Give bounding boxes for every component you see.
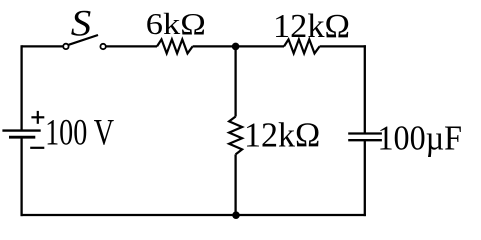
battery minus sign bbox=[30, 147, 44, 149]
svg-text:12kΩ: 12kΩ bbox=[244, 115, 320, 154]
wire left vertical (battery to top-left corner) bbox=[20, 45, 22, 130]
wire switch to 6k resistor bbox=[106, 45, 157, 47]
battery plus sign bbox=[31, 111, 44, 124]
resistor 12k middle vertical zigzag bbox=[229, 117, 242, 155]
svg-text:12kΩ: 12kΩ bbox=[273, 8, 350, 45]
switch S blade bbox=[69, 35, 98, 45]
capacitor C1 bottom plate bbox=[348, 139, 382, 141]
svg-text:6kΩ: 6kΩ bbox=[146, 6, 206, 41]
wire left vertical lower (battery to bottom-left corner) bbox=[20, 137, 22, 216]
wire right vertical upper (corner to capacitor) bbox=[364, 45, 366, 133]
svg-text:100 V: 100 V bbox=[45, 112, 114, 153]
wire middle vertical lower (12k resistor to bottom node) bbox=[234, 154, 236, 215]
junction dot top node bbox=[232, 43, 240, 51]
capacitor C1 top plate bbox=[348, 132, 382, 134]
resistor 6k zigzag bbox=[157, 39, 193, 53]
switch S right terminal circle bbox=[100, 44, 105, 49]
svg-text:S: S bbox=[71, 4, 92, 45]
wire bottom horizontal bbox=[21, 214, 366, 216]
switch S left terminal circle bbox=[63, 44, 68, 49]
junction dot bottom node bbox=[232, 211, 240, 219]
battery V1 bottom plate (-) bbox=[9, 136, 35, 139]
wire 6k resistor to middle node bbox=[193, 45, 284, 47]
wire top-left segment (corner to switch) bbox=[22, 45, 64, 47]
wire 12k top resistor to top-right corner bbox=[320, 45, 366, 47]
svg-text:100µF: 100µF bbox=[378, 118, 463, 157]
wire middle vertical upper (top node to 12k resistor) bbox=[234, 46, 236, 116]
battery V1 top plate (+) bbox=[2, 129, 40, 131]
wire right vertical lower (capacitor to bottom-right corner) bbox=[364, 140, 366, 216]
resistor 12k top zigzag bbox=[284, 39, 320, 53]
